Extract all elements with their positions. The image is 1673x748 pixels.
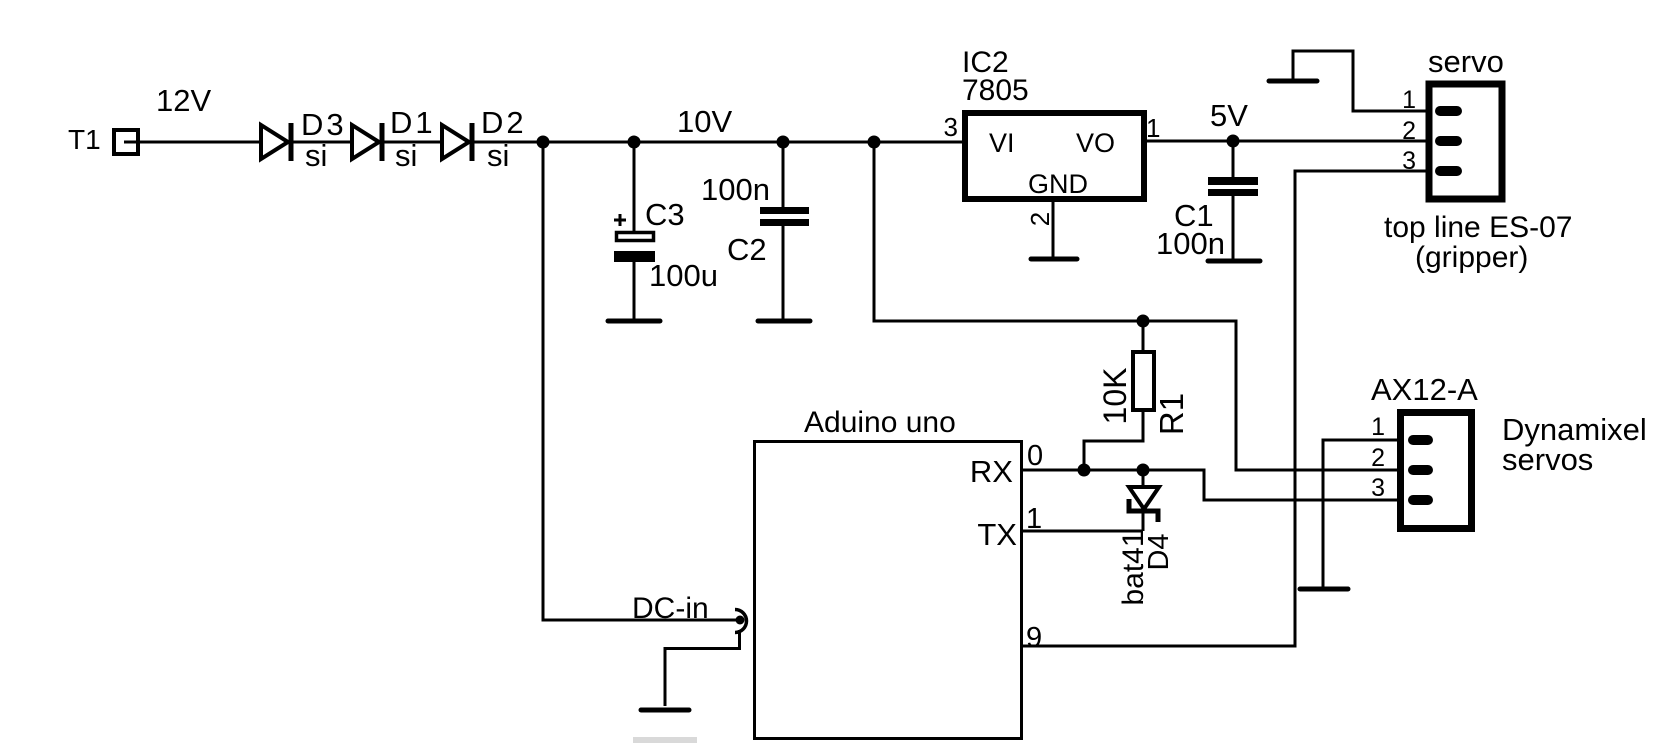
svg-text:T1: T1 [68,124,101,155]
wire 10V rail down and across to AX12 pin 2 [874,142,1397,470]
junction on rail at x783 [777,136,790,149]
svg-text:10V: 10V [677,104,732,139]
wire D1 to D2 [384,141,441,144]
svg-text:100n: 100n [1156,226,1225,261]
junction on rail at x634 [628,136,641,149]
junction at R1 top [1137,315,1150,328]
junction RX / D4 [1137,464,1150,477]
svg-text:VI: VI [989,128,1015,158]
svg-text:(gripper): (gripper) [1415,241,1528,274]
svg-text:1: 1 [1402,86,1416,114]
svg-text:C2: C2 [727,232,767,267]
svg-text:D3: D3 [301,107,347,142]
svg-text:7805: 7805 [962,74,1029,107]
IC Arduino uno [755,406,1044,739]
svg-text:top line ES-07: top line ES-07 [1384,211,1572,244]
ground under DC jack [641,708,689,713]
wire D2 to IC2 pin3 (10V rail) [474,141,962,144]
svg-text:12V: 12V [156,83,211,118]
wire T1 to D3 [124,141,260,144]
wire AX12 pin 1 to ground [1323,440,1397,589]
svg-text:GND: GND [1028,169,1088,199]
svg-text:10K: 10K [1097,368,1133,425]
resistor R1 [1084,321,1190,470]
svg-text:D1: D1 [390,105,436,140]
ground at servo pin 1 [1269,79,1317,84]
junction on rail at x874 [868,136,881,149]
junction on rail at x543 [537,136,550,149]
ground under AX12 pin 1 [1300,587,1348,592]
node 5V [1210,98,1248,133]
svg-text:3: 3 [1371,474,1385,502]
svg-text:VO: VO [1076,128,1115,158]
node 12V [156,83,211,118]
junction RX / R1 [1078,464,1091,477]
diode D3 [261,107,347,173]
svg-text:2: 2 [1402,117,1416,145]
svg-text:0: 0 [1027,440,1043,472]
svg-text:2: 2 [1371,444,1385,472]
svg-text:C3: C3 [645,197,685,232]
wire Arduino TX to D4 [1023,530,1143,533]
connector servo (top line ES-07 gripper) [1384,44,1572,274]
svg-text:servos: servos [1502,442,1593,477]
regulator IC2 7805 [944,46,1161,258]
node 10V [677,104,732,139]
svg-text:DC-in: DC-in [632,592,709,625]
ground under C1 [1208,259,1260,264]
svg-text:5V: 5V [1210,98,1248,133]
cut-off text fragment at bottom [633,737,697,743]
svg-text:servo: servo [1428,44,1504,79]
connector DC jack [665,610,746,707]
diode D2 [442,105,527,173]
diode D1 [352,105,436,173]
wire servo pin 3 to Arduino pin 9 [1023,171,1429,646]
wire D3 to D1 [293,141,351,144]
svg-text:1: 1 [1371,413,1385,441]
junction at C1 top [1227,135,1240,148]
wire ground to servo pin 1 [1293,51,1429,111]
diode D4 bat41 [1117,470,1175,606]
svg-text:AX12-A: AX12-A [1371,372,1478,407]
terminal T1 [68,124,138,155]
capacitor C3 [614,142,718,321]
connector AX12-A [1371,372,1647,529]
wire Arduino RX to AX12 pin 3 [1023,470,1397,500]
svg-text:100u: 100u [649,258,718,293]
wire rail to DC-in jack [543,142,736,620]
svg-text:D4: D4 [1143,533,1175,570]
ground under IC2 pin 2 [1031,257,1077,262]
ground under C3 [608,319,660,324]
svg-text:1: 1 [1146,113,1160,143]
svg-text:TX: TX [977,517,1017,552]
node DC-in [632,592,709,625]
capacitor C2 [701,142,809,321]
svg-text:R1: R1 [1153,393,1190,435]
svg-text:3: 3 [944,112,958,142]
svg-text:Aduino uno: Aduino uno [804,406,956,439]
svg-text:D2: D2 [481,105,527,140]
capacitor C1 [1156,141,1258,261]
wire IC2 VO to servo pin 2 (5V rail) [1147,140,1429,143]
svg-text:100n: 100n [701,172,770,207]
svg-text:9: 9 [1026,622,1042,654]
ground under C2 [758,319,810,324]
svg-text:2: 2 [1025,212,1055,226]
svg-text:RX: RX [970,454,1013,489]
